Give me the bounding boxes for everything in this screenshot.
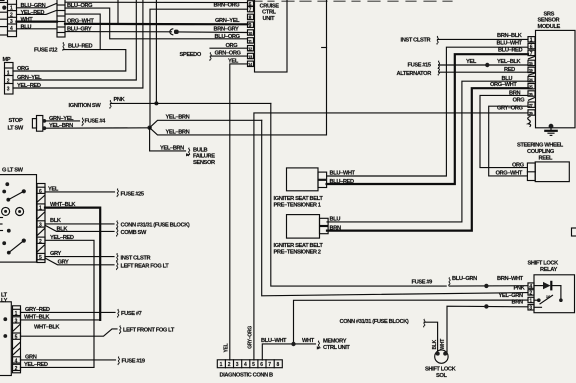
contact rings (2, 207, 10, 215)
svg-text:BRN: BRN (509, 90, 520, 96)
svg-text:DIAGNOSTIC CONN B: DIAGNOSTIC CONN B (220, 372, 274, 378)
svg-text:YEL–BRN: YEL–BRN (166, 130, 190, 136)
wire YEL-RED continuation from strip (65, 14, 100, 49)
shift lock sol (435, 350, 448, 363)
svg-text:FUSE #12: FUSE #12 (34, 48, 57, 54)
svg-text:BLK: BLK (57, 226, 69, 232)
svg-text:BLK: BLK (432, 339, 438, 349)
svg-text:YEL: YEL (223, 343, 229, 352)
svg-text:BLU–RED: BLU–RED (330, 179, 354, 185)
wire stubs to left edge (0, 2, 8, 4)
SRS pin boxes (528, 37, 535, 42)
svg-text:SRS: SRS (544, 11, 555, 17)
wire YEL-RED down to fog relay pin 2 (21, 240, 95, 367)
wire GRY-RED to fuse #7 (21, 311, 116, 313)
svg-text:GRY: GRY (58, 259, 70, 265)
svg-text:YEL–BRN: YEL–BRN (166, 114, 190, 120)
svg-text:FUSE #19: FUSE #19 (122, 359, 145, 365)
svg-text:YEL: YEL (48, 187, 59, 193)
wire PNK to relay pin 2 (fed from YEL-BRN riser) (262, 120, 528, 295)
wire BLU-RED (bold) pretensioner1 to SRS pin 7 (327, 54, 528, 184)
svg-text:BRN–WHT: BRN–WHT (497, 276, 524, 282)
svg-text:SENSOR: SENSOR (538, 18, 560, 24)
wire riser x156.4 to PNK junction (155, 0, 157, 103)
relay internal diode (534, 285, 543, 287)
svg-text:INST CLSTR: INST CLSTR (401, 38, 431, 44)
switch contacts lower (7, 229, 11, 233)
svg-text:ALTERNATOR: ALTERNATOR (397, 71, 432, 77)
svg-text:YEL–RED: YEL–RED (24, 362, 48, 368)
svg-text:ORG: ORG (513, 98, 526, 104)
svg-text:YEL–RED: YEL–RED (17, 83, 41, 89)
svg-text:INST CLSTR: INST CLSTR (121, 255, 151, 261)
split junction dot (147, 126, 151, 130)
svg-text:RED: RED (504, 67, 515, 73)
wire YEL-BRN upper branch (150, 120, 262, 127)
svg-text:SHIFT LOCK: SHIFT LOCK (528, 260, 560, 266)
svg-text:BLK: BLK (50, 218, 62, 224)
svg-text:WHT–BLK: WHT–BLK (50, 202, 76, 208)
wire BLU-WHT / WHT to memory ctrl unit, drop to pin 6 (262, 344, 315, 360)
svg-text:FUSE #7: FUSE #7 (121, 311, 142, 317)
wire BLU-RED from fuse #12 (13, 50, 126, 71)
svg-text:YEL–BRN: YEL–BRN (160, 146, 184, 152)
svg-text:LEFT REAR FOG LT: LEFT REAR FOG LT (121, 264, 170, 270)
svg-text:GRY–ORG: GRY–ORG (497, 106, 524, 112)
wire WHT pin3 to strip (bold) (17, 21, 58, 23)
svg-text:GRY–ORG: GRY–ORG (247, 326, 253, 349)
fuse #9 reference + wire BLU-GRN / BRN-WHT to relay pin 4 (fed from PNK riser) (271, 103, 446, 286)
svg-text:BLU–WHT: BLU–WHT (261, 338, 287, 344)
svg-text:ORG: ORG (17, 66, 30, 72)
svg-text:WHT: WHT (440, 339, 446, 350)
svg-text:FUSE #15: FUSE #15 (408, 62, 431, 68)
svg-text:WHT–BLK: WHT–BLK (34, 325, 60, 331)
wire GRY branch to left rear fog lt (45, 258, 114, 265)
wire BLU-GRY from strip to splice (65, 31, 172, 33)
svg-text:MEMORY: MEMORY (323, 338, 347, 344)
svg-text:G LT SW: G LT SW (2, 167, 24, 173)
fog lt rly body box (0, 302, 11, 376)
in-line connector strip (57, 0, 65, 37)
wire riser x136 to MP pin 2 (13, 0, 136, 80)
svg-text:PRE–TENSIONER 1: PRE–TENSIONER 1 (274, 202, 321, 208)
wire BLU-GRN top bus to cruise pin 6 (65, 1, 248, 3)
svg-text:YEL: YEL (228, 58, 239, 64)
svg-text:YEL–BLK: YEL–BLK (497, 59, 522, 65)
svg-text:YEL–GRN: YEL–GRN (499, 293, 523, 299)
svg-text:GRN: GRN (25, 355, 37, 361)
wire YEL-BRN from stop lt sw to split junction (46, 127, 149, 129)
svg-text:GRN–YEL: GRN–YEL (215, 18, 240, 24)
wire YEL-RED pin2 to strip (17, 10, 58, 14)
relay pin boxes 4 2 1 3 (528, 283, 534, 288)
svg-text:STEERING WHEEL: STEERING WHEEL (517, 142, 564, 148)
cruise ctrl unit box (255, 0, 288, 72)
svg-text:CTRL UNIT: CTRL UNIT (323, 345, 350, 351)
svg-text:ORG–WHT: ORG–WHT (67, 18, 94, 24)
svg-text:PNK: PNK (114, 97, 126, 103)
wire BLU-WHT pretensioner1 to SRS pin 6 (327, 47, 528, 176)
svg-text:WHT–BLK: WHT–BLK (24, 315, 50, 321)
wire ORG to SRS pin 27, down to reel ORG-WHT (489, 106, 528, 176)
svg-text:PRE–TENSIONER 2: PRE–TENSIONER 2 (274, 249, 321, 255)
relay internal contact (560, 286, 562, 301)
splice connector on BRN-GRY wire (170, 29, 173, 35)
svg-text:REEL: REEL (539, 156, 554, 162)
wire YEL-BRN to bulb failure sensor (150, 128, 186, 151)
wire ORG to pin 12 (210, 47, 248, 49)
svg-text:YEL–BRN: YEL–BRN (49, 123, 73, 129)
svg-text:WHT: WHT (21, 17, 34, 23)
svg-text:BRN: BRN (512, 300, 523, 306)
svg-text:SPEEDO: SPEEDO (180, 52, 202, 58)
wire BRN-GRY to pin 10 (179, 31, 248, 34)
hatch marks between pins (38, 196, 45, 202)
diagnostic conn B strip (217, 360, 282, 368)
ground at SRS module (549, 124, 554, 129)
svg-text:BLU–RED: BLU–RED (68, 43, 92, 49)
svg-text:YEL–RED: YEL–RED (21, 10, 45, 16)
svg-text:YEL: YEL (466, 59, 477, 65)
svg-text:FAILURE: FAILURE (193, 154, 215, 160)
cruise pin column pins 6-14 (248, 1, 254, 6)
svg-text:LT SW: LT SW (8, 126, 24, 132)
svg-text:ORG: ORG (512, 163, 525, 169)
wire GRY to inst clstr (45, 256, 114, 258)
svg-text:CONN #31/31 (FUSE BLOCK): CONN #31/31 (FUSE BLOCK) (121, 223, 190, 229)
fog lt sw body box (0, 175, 37, 263)
svg-text:BLU–ORG: BLU–ORG (215, 34, 241, 40)
svg-text:IGNITION SW: IGNITION SW (69, 103, 102, 109)
svg-text:LEFT FRONT FOG LT: LEFT FRONT FOG LT (123, 327, 175, 333)
svg-text:GRN–YEL: GRN–YEL (17, 75, 42, 81)
switch lever upper (8, 191, 23, 199)
svg-text:YEL–RED: YEL–RED (50, 235, 74, 241)
wire BLU-GRN pin1 to strip (17, 3, 58, 8)
stray scan marks (cut-off text row at top edge) (253, 0, 452, 2)
wire GRN to fuse #19 (21, 359, 116, 361)
svg-text:BLU–GRY: BLU–GRY (67, 26, 92, 32)
wire GRN-YEL to fuse #4 (46, 120, 80, 122)
svg-text:16: 16 (546, 295, 550, 299)
junction dot on PNK wire (154, 101, 158, 105)
wire BRN / ORG-WHT (bold) pretensioner2 to SRS pin 25 (327, 88, 528, 230)
wire YEL to fuse #25 (45, 191, 115, 193)
svg-text:COUPLING: COUPLING (527, 149, 555, 155)
svg-text:BRN–GRY: BRN–GRY (214, 26, 240, 32)
svg-text:MODULE: MODULE (538, 24, 561, 30)
svg-text:GRY: GRY (50, 251, 62, 257)
wire YEL-GRN to relay pin 1 (294, 300, 529, 344)
svg-text:BLU–RED: BLU–RED (498, 48, 522, 54)
fuse #12 reference (63, 42, 64, 50)
svg-text:FUSE #4: FUSE #4 (85, 118, 107, 124)
svg-text:BULB: BULB (193, 147, 208, 153)
wire BRN-ORG from corner to cruise pin 7, riser to split junction (150, 9, 248, 127)
node marker dot at pin 1 (2, 6, 6, 10)
svg-text:BRN: BRN (330, 225, 341, 231)
wire riser x143 to MP pin 3 (13, 0, 143, 88)
svg-text:SHIFT LOCK: SHIFT LOCK (425, 367, 457, 373)
svg-text:BLU–WHT: BLU–WHT (330, 171, 356, 177)
wire BLU-ORG from strip (65, 8, 248, 39)
connector block C1 (4-pin, top left) (8, 0, 17, 37)
wire riser x118 to bold bus (117, 0, 119, 24)
wire BRN to relay pin 3, down to solenoid (447, 306, 528, 352)
svg-text:BLU–ORG: BLU–ORG (67, 3, 93, 9)
wire BRN to SRS pin 26, down to reel ORG (480, 95, 528, 167)
svg-text:FUSE #25: FUSE #25 (121, 192, 144, 198)
wire BLU pretensioner2 to SRS pin 24 (327, 81, 528, 222)
igniter seat belt pre-tensioner 1 (287, 168, 319, 191)
svg-text:BLU: BLU (21, 25, 32, 31)
svg-text:GRN–YEL: GRN–YEL (49, 116, 74, 122)
svg-text:BLU–GRN: BLU–GRN (452, 276, 477, 282)
fog sw pin strip (37, 184, 45, 263)
svg-text:BLU: BLU (330, 217, 341, 223)
svg-text:BLU–WHT: BLU–WHT (497, 40, 523, 46)
svg-text:IGNITER SEAT BELT: IGNITER SEAT BELT (274, 243, 324, 249)
switch lever lower (9, 241, 24, 253)
svg-text:COMB SW: COMB SW (121, 230, 147, 236)
wire BLK branch to comb sw (45, 225, 114, 231)
fog rly pin strip (13, 306, 21, 373)
wire WHT-BLK pin 5 to left front fog lt (21, 329, 118, 336)
svg-text:IGNITER SEAT BELT: IGNITER SEAT BELT (274, 196, 324, 202)
svg-text:BRN–BLK: BRN–BLK (497, 33, 523, 39)
wire GRY-ORG SRS pin 29 to diagnostic conn (254, 113, 528, 360)
svg-text:WHT: WHT (302, 338, 315, 344)
svg-text:LY: LY (1, 298, 8, 304)
svg-text:SOL: SOL (436, 373, 447, 379)
igniter seat belt pre-tensioner 2 (287, 215, 320, 239)
wire WHT-BLK pin 3 (21, 319, 101, 321)
svg-text:GRN–ORG: GRN–ORG (215, 50, 242, 56)
wire ORG-WHT bold bus to cruise pin 9 (65, 23, 248, 26)
svg-text:ORG–WHT: ORG–WHT (490, 82, 517, 88)
svg-text:CRUISE: CRUISE (260, 3, 280, 9)
SRS sensor module box (536, 30, 576, 127)
svg-text:ORG: ORG (226, 43, 239, 49)
wire BLU pin4 to strip (17, 28, 58, 30)
svg-text:SENSOR: SENSOR (193, 160, 215, 166)
switch contacts upper (5, 182, 9, 186)
svg-text:STOP: STOP (9, 118, 23, 124)
svg-text:GRY–RED: GRY–RED (25, 307, 50, 313)
svg-text:CONN #31/31 (FUSE BLOCK): CONN #31/31 (FUSE BLOCK) (340, 319, 409, 325)
svg-text:PNK: PNK (514, 285, 526, 291)
svg-text:FUSE #9: FUSE #9 (412, 279, 433, 285)
svg-text:CTRL: CTRL (262, 10, 277, 16)
svg-text:BLU–GRN: BLU–GRN (21, 3, 46, 9)
wire BLK to conn 31/31 (45, 223, 114, 225)
wire YEL-BRN lower branch (150, 0, 327, 135)
svg-text:BRN–ORG: BRN–ORG (214, 2, 241, 8)
svg-text:UNIT: UNIT (263, 16, 276, 22)
svg-text:RELAY: RELAY (540, 267, 557, 273)
wire WHT-BLK bold down to fog relay pin 3 (45, 208, 100, 320)
wire YEL from pin 14 down to diagnostic conn (230, 64, 248, 360)
svg-text:ORG–WHT: ORG–WHT (496, 171, 523, 177)
